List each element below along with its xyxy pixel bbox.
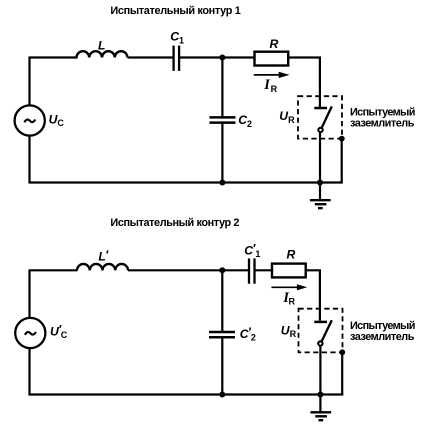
test object dashed box (circuit 1)	[298, 96, 342, 138]
capacitor C'2	[209, 332, 235, 337]
svg-text:L′: L′	[98, 248, 108, 264]
capacitor C1	[174, 46, 180, 71]
current arrow I_R (circuit 1)	[254, 74, 280, 76]
svg-text:заземлитель: заземлитель	[350, 117, 415, 129]
ground symbol (circuit 1)	[310, 183, 331, 209]
ground symbol (circuit 2)	[310, 395, 331, 421]
inductor L	[77, 51, 128, 57]
wire: switch to bottom wire	[319, 132, 321, 182]
svg-text:R: R	[289, 297, 296, 307]
wire: source to bottom-left corner and bottom wire (circuit 1)	[30, 136, 343, 183]
switch hinge circle (circuit 2)	[318, 341, 322, 345]
wire: switch to bottom wire (circuit 2)	[319, 346, 321, 395]
wire: C2 down to bottom wire	[221, 124, 223, 183]
wire: box corner down to bottom wire (circuit 1)	[341, 139, 343, 183]
current arrow I_R (circuit 2)	[271, 286, 298, 288]
junction node (ground tap, circuit 1)	[317, 180, 323, 186]
junction node (C2 bottom)	[219, 180, 225, 186]
junction node (C2 tap, circuit 1)	[219, 55, 225, 61]
wire: C1 to resistor R	[180, 56, 256, 58]
switch fixed contact bar (circuit 1)	[314, 107, 327, 110]
junction node (box corner, circuit 1)	[339, 136, 345, 142]
switch blade (circuit 2)	[322, 320, 332, 341]
resistor R (circuit 2)	[272, 264, 306, 278]
wire: inductor to junction and C'1	[128, 269, 248, 271]
inductor L'	[77, 264, 128, 270]
wire: R to top-right corner down into test box (circuit 2)	[306, 270, 320, 320]
svg-text:Испытуемый: Испытуемый	[350, 320, 415, 332]
junction node (box corner, circuit 2)	[339, 349, 345, 355]
test object dashed box (circuit 2)	[299, 309, 343, 353]
switch fixed contact bar (circuit 2)	[314, 321, 327, 324]
capacitor C'1	[249, 258, 255, 283]
svg-text:заземлитель: заземлитель	[350, 331, 415, 343]
wire: top-left corner and left vertical (circuit 2)	[30, 270, 78, 318]
AC source U_C (circuit 1)	[15, 105, 45, 135]
svg-text:R: R	[287, 247, 296, 261]
wire: source to bottom-left corner and bottom wire (circuit 2)	[30, 348, 344, 394]
wire: junction down to C2	[221, 58, 223, 117]
svg-text:I: I	[263, 77, 270, 93]
junction node (ground tap, circuit 2)	[317, 392, 323, 398]
junction node (C'2 tap, circuit 2)	[219, 267, 225, 273]
wire: top-left corner and left vertical (circuit 1)	[30, 58, 78, 106]
wire: inductor to C1	[128, 56, 173, 58]
wire: junction down to C'2	[221, 270, 223, 331]
switch hinge circle (circuit 1)	[318, 128, 322, 132]
wire: C'1 to resistor R (circuit 2)	[256, 269, 274, 271]
svg-text:Испытательный контур 2: Испытательный контур 2	[110, 217, 239, 229]
svg-text:R: R	[270, 37, 279, 51]
junction node (C'2 bottom)	[219, 392, 225, 398]
wire: C'2 down to bottom wire	[221, 338, 223, 395]
capacitor C2	[210, 117, 236, 122]
svg-text:R: R	[271, 84, 278, 94]
wire: box corner down to bottom wire (circuit 2)	[341, 352, 343, 394]
switch blade (circuit 1)	[322, 106, 332, 127]
AC source U'_C (circuit 2)	[15, 318, 45, 348]
svg-text:L: L	[98, 39, 105, 53]
svg-text:Испытательный контур 1: Испытательный контур 1	[110, 5, 240, 17]
wire: R to top-right corner down into test box	[288, 58, 320, 108]
resistor R (circuit 1)	[255, 52, 289, 66]
